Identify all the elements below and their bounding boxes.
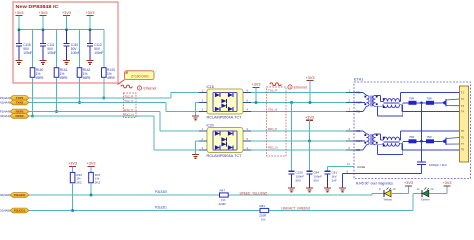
svg-text:P3LED0: P3LED0 (155, 190, 167, 194)
svg-text:D0[4A8]: D0[4A8] (0, 193, 10, 197)
svg-text:RD1_N: RD1_N (268, 145, 277, 149)
svg-text:RX2_N: RX2_N (124, 112, 133, 116)
svg-text:+3V3: +3V3 (306, 76, 315, 80)
svg-text:LINK/ACT_GREEN2: LINK/ACT_GREEN2 (281, 207, 310, 211)
svg-text:Ethernet: Ethernet (144, 86, 157, 90)
svg-text:R81: R81 (260, 204, 266, 208)
svg-text:TD1_P: TD1_P (268, 88, 277, 92)
svg-text:100nF: 100nF (94, 51, 103, 55)
svg-text:11: 11 (347, 162, 350, 166)
svg-text:IC18: IC18 (207, 85, 214, 89)
svg-text:R47: R47 (220, 189, 226, 193)
svg-text:50V: 50V (296, 178, 301, 182)
svg-text:TX2_P: TX2_P (124, 94, 133, 98)
svg-text:75R: 75R (427, 96, 432, 100)
svg-text:50V: 50V (314, 178, 319, 182)
svg-text:TD1_N: TD1_N (268, 107, 277, 111)
svg-text:1%: 1% (261, 218, 266, 222)
svg-text:+3V3: +3V3 (68, 162, 77, 166)
svg-text:+3V3: +3V3 (443, 181, 452, 185)
svg-text:N2[4A4]: N2[4A4] (0, 101, 10, 105)
svg-text:75R: 75R (427, 135, 432, 139)
svg-text:2K2: 2K2 (76, 180, 82, 184)
svg-text:+3V3: +3V3 (62, 11, 71, 15)
svg-text:Green: Green (421, 197, 430, 201)
svg-text:2K2: 2K2 (95, 180, 101, 184)
svg-text:75R: 75R (409, 96, 414, 100)
svg-text:IC20: IC20 (207, 123, 214, 127)
svg-text:RD1_P: RD1_P (268, 127, 277, 131)
svg-text:100nF: 100nF (23, 51, 32, 55)
svg-text:100nF: 100nF (47, 51, 56, 55)
svg-text:49R9: 49R9 (36, 76, 44, 80)
svg-text:+3V3: +3V3 (39, 11, 48, 15)
svg-text:+3V3: +3V3 (305, 116, 314, 120)
svg-text:75R: 75R (409, 135, 414, 139)
svg-text:+3V3: +3V3 (15, 11, 24, 15)
svg-text:RXN2: RXN2 (15, 114, 23, 118)
svg-text:TX2_N: TX2_N (124, 99, 133, 103)
svg-text:11: 11 (417, 187, 420, 191)
svg-text:P3LED1: P3LED1 (14, 209, 26, 213)
svg-text:220R: 220R (219, 202, 227, 206)
svg-text:1000pF / 2kV: 1000pF / 2kV (429, 163, 447, 167)
svg-text:RCLAMP0504A.TCT: RCLAMP0504A.TCT (207, 115, 242, 119)
svg-text:Z=100 Ohm: Z=100 Ohm (131, 74, 149, 78)
svg-text:P3LED1: P3LED1 (155, 206, 167, 210)
svg-text:+3V3: +3V3 (87, 162, 96, 166)
svg-text:+3V3: +3V3 (404, 181, 413, 185)
svg-text:RXP2: RXP2 (16, 110, 24, 114)
svg-text:100nF: 100nF (71, 51, 80, 55)
svg-text:RCLAMP0504A.TCT: RCLAMP0504A.TCT (207, 154, 242, 158)
svg-text:TXP2: TXP2 (16, 96, 24, 100)
svg-text:P3LED0: P3LED0 (14, 193, 26, 197)
svg-text:RX2_P: RX2_P (124, 108, 133, 112)
svg-text:P2[4A4]: P2[4A4] (0, 96, 10, 100)
svg-text:Ethernet: Ethernet (294, 86, 307, 90)
svg-text:New DP83848 IC: New DP83848 IC (16, 4, 60, 9)
svg-text:10: 10 (393, 187, 397, 191)
svg-text:49R9: 49R9 (107, 76, 115, 80)
svg-text:TXN2: TXN2 (16, 101, 24, 105)
svg-text:49R9: 49R9 (83, 76, 91, 80)
svg-text:12: 12 (430, 187, 434, 191)
svg-text:ETH1: ETH1 (354, 78, 363, 82)
svg-text:1nF: 1nF (332, 178, 337, 182)
svg-text:D1[4A8]: D1[4A8] (0, 209, 10, 213)
svg-text:Yellow: Yellow (383, 197, 392, 201)
svg-text:P2[4A4]: P2[4A4] (0, 110, 10, 114)
svg-text:+3V3: +3V3 (86, 11, 95, 15)
svg-text:+3V3: +3V3 (252, 83, 261, 87)
svg-text:RJ45 90° over magnetics: RJ45 90° over magnetics (356, 181, 393, 185)
svg-text:SPEED_YELLOW2: SPEED_YELLOW2 (240, 191, 268, 195)
svg-text:N2[4A4]: N2[4A4] (0, 114, 10, 118)
svg-text:49R9: 49R9 (60, 76, 68, 80)
svg-text:CASE: CASE (357, 165, 365, 169)
